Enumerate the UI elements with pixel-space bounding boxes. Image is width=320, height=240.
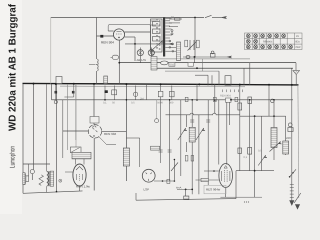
svg-text:REN904: REN904 <box>263 41 273 44</box>
svg-text:Lumophon: Lumophon <box>10 146 17 168</box>
svg-text:AB 1/W: AB 1/W <box>137 58 147 62</box>
svg-text:4mA: 4mA <box>176 187 182 190</box>
svg-text:B2x: B2x <box>296 41 301 44</box>
svg-text:RGN 1,9w: RGN 1,9w <box>76 185 91 189</box>
svg-text:REN 904: REN 904 <box>101 41 114 45</box>
svg-text:25W: 25W <box>295 46 301 49</box>
svg-text:0,5: 0,5 <box>131 102 135 105</box>
svg-text:502: 502 <box>170 64 175 67</box>
svg-text:WD 220a mit AB 1 Burggraf: WD 220a mit AB 1 Burggraf <box>8 3 19 131</box>
svg-text:0,1: 0,1 <box>103 102 107 105</box>
svg-text:REN 904: REN 904 <box>220 95 231 98</box>
svg-text:LSP: LSP <box>144 188 150 192</box>
svg-text:220: 220 <box>286 136 291 140</box>
svg-text:0,5: 0,5 <box>258 150 262 153</box>
svg-text:REN 904: REN 904 <box>104 132 117 136</box>
svg-text:0,1: 0,1 <box>244 156 248 159</box>
svg-text:RES 964w: RES 964w <box>206 188 221 192</box>
svg-text:4V: 4V <box>296 35 299 38</box>
svg-text:5000: 5000 <box>157 102 163 105</box>
svg-text:2M: 2M <box>140 98 144 101</box>
